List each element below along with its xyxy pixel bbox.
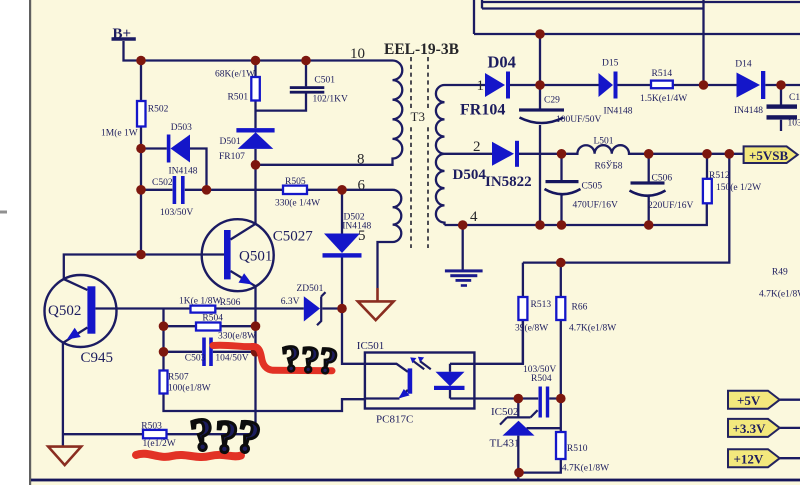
svg-text:C505: C505 — [582, 182, 603, 192]
svg-text:4.7K(e1/8W: 4.7K(e1/8W — [562, 463, 609, 474]
svg-text:4: 4 — [470, 209, 478, 225]
svg-text:100UF/50V: 100UF/50V — [556, 115, 602, 125]
svg-text:150(e 1/2W: 150(e 1/2W — [716, 182, 761, 193]
svg-text:R66: R66 — [572, 303, 588, 313]
svg-text:C5027: C5027 — [273, 229, 314, 245]
svg-text:102/1KV: 102/1KV — [313, 95, 349, 105]
svg-text:100(e1/8W: 100(e1/8W — [168, 382, 211, 393]
svg-text:104/50V: 104/50V — [215, 354, 248, 364]
svg-text:B+: B+ — [113, 26, 132, 42]
svg-text:330(e/8W: 330(e/8W — [218, 330, 256, 341]
svg-text:R6ЎБ8: R6ЎБ8 — [595, 160, 623, 172]
svg-text:FR107: FR107 — [219, 152, 245, 162]
svg-text:Q502: Q502 — [48, 303, 81, 319]
svg-text:PC817C: PC817C — [376, 414, 413, 426]
svg-text:R512: R512 — [709, 171, 730, 181]
svg-text:R514: R514 — [652, 69, 673, 79]
svg-text:1.5K(e1/4W: 1.5K(e1/4W — [640, 93, 687, 104]
svg-text:R506: R506 — [220, 298, 241, 308]
svg-text:8: 8 — [357, 152, 365, 168]
svg-text:Q501: Q501 — [239, 249, 272, 265]
svg-text:IC502: IC502 — [491, 406, 519, 418]
svg-text:D15: D15 — [602, 59, 619, 69]
svg-text:R513: R513 — [531, 300, 552, 310]
svg-text:R507: R507 — [168, 373, 189, 383]
svg-text:R503: R503 — [141, 422, 162, 432]
svg-text:+5V: +5V — [737, 393, 761, 408]
svg-text:C1: C1 — [789, 93, 800, 103]
svg-text:D503: D503 — [171, 123, 192, 133]
svg-text:10: 10 — [350, 46, 365, 62]
svg-text:+3.3V: +3.3V — [733, 421, 767, 436]
svg-text:FR104: FR104 — [460, 102, 505, 119]
svg-text:IN4148: IN4148 — [604, 107, 633, 117]
svg-text:330(e 1/4W: 330(e 1/4W — [275, 198, 320, 209]
svg-text:103/50V: 103/50V — [160, 208, 193, 218]
svg-text:+5VSB: +5VSB — [749, 148, 789, 163]
svg-text:220UF/16V: 220UF/16V — [648, 201, 694, 211]
svg-text:EEL-19-3B: EEL-19-3B — [384, 41, 459, 58]
svg-text:C502: C502 — [152, 178, 173, 188]
svg-text:T3: T3 — [411, 109, 425, 124]
svg-text:D501: D501 — [220, 137, 241, 147]
svg-text:ZD501: ZD501 — [297, 284, 324, 294]
svg-text:4.7K(e1/8W: 4.7K(e1/8W — [759, 289, 800, 300]
svg-text:R504: R504 — [202, 313, 223, 323]
svg-text:1: 1 — [477, 78, 485, 94]
svg-text:R510: R510 — [567, 444, 588, 454]
svg-text:C945: C945 — [81, 350, 114, 366]
svg-text:+12V: +12V — [734, 451, 764, 466]
svg-text:39(e/8W: 39(e/8W — [515, 323, 548, 334]
svg-text:D504: D504 — [453, 167, 487, 183]
svg-text:D14: D14 — [735, 60, 752, 70]
svg-text:6: 6 — [358, 178, 366, 194]
svg-text:1K(e 1/8W: 1K(e 1/8W — [179, 296, 222, 307]
svg-text:IN4148: IN4148 — [342, 222, 371, 232]
svg-text:C29: C29 — [544, 96, 560, 106]
svg-text:68K(e/1W: 68K(e/1W — [215, 69, 255, 80]
svg-text:R49: R49 — [772, 268, 788, 278]
svg-text:R504: R504 — [531, 374, 552, 384]
svg-text:C503: C503 — [185, 354, 206, 364]
svg-text:D04: D04 — [488, 53, 516, 72]
svg-text:R502: R502 — [148, 105, 169, 115]
svg-text:2: 2 — [473, 139, 481, 155]
svg-text:6.3V: 6.3V — [281, 297, 300, 307]
svg-text:1(e1/2W: 1(e1/2W — [143, 438, 176, 449]
svg-text:IN5822: IN5822 — [485, 174, 532, 190]
svg-text:470UF/16V: 470UF/16V — [573, 201, 619, 211]
svg-text:4.7K(e1/8W: 4.7K(e1/8W — [569, 323, 616, 334]
svg-text:C506: C506 — [652, 174, 673, 184]
svg-text:L501: L501 — [594, 137, 614, 147]
svg-text:IN4148: IN4148 — [169, 166, 198, 176]
svg-text:1M(e 1W: 1M(e 1W — [101, 128, 138, 139]
svg-text:R501: R501 — [228, 93, 249, 103]
svg-text:C501: C501 — [314, 76, 335, 86]
svg-text:IN4148: IN4148 — [734, 106, 763, 116]
svg-text:103: 103 — [788, 119, 800, 129]
svg-text:R505: R505 — [285, 177, 306, 187]
svg-text:TL431: TL431 — [490, 438, 520, 450]
svg-text:IC501: IC501 — [357, 340, 385, 352]
